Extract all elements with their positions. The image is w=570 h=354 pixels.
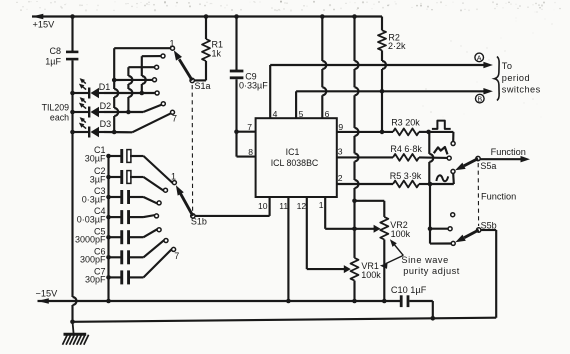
svg-text:1k: 1k: [212, 49, 222, 59]
wire D1 row to contact5: [104, 92, 155, 94]
svg-text:11: 11: [279, 201, 288, 211]
LED D2: [70, 97, 111, 117]
svg-text:R4 6·8k: R4 6·8k: [390, 144, 422, 154]
svg-text:6: 6: [325, 109, 330, 119]
svg-text:100k: 100k: [391, 229, 411, 239]
svg-text:S1a: S1a: [195, 81, 211, 91]
svg-text:Sine wave: Sine wave: [401, 255, 448, 265]
svg-text:30µF: 30µF: [85, 153, 106, 163]
square wave output branch: [429, 132, 456, 146]
wire C9 to IC pin 8: [237, 156, 256, 158]
ground rail wire: [73, 316, 497, 322]
capacitor C5: [75, 226, 158, 244]
Function output arrow (S5a): [480, 147, 530, 162]
switch S5b: [448, 213, 497, 246]
wire S1a pole to R1: [194, 79, 206, 81]
potentiometer VR2: [355, 201, 411, 304]
svg-text:4: 4: [273, 109, 278, 119]
svg-text:A: A: [477, 53, 482, 62]
svg-text:−15V: −15V: [36, 289, 59, 299]
svg-text:0·03µF: 0·03µF: [77, 214, 106, 224]
wire capacitor bus: [106, 156, 111, 303]
capacitor C8: [45, 46, 78, 67]
switch S1a: [153, 38, 211, 123]
scan noise (decorative): [16, 1, 560, 118]
pin label 1 (bottom): [319, 200, 324, 210]
svg-text:B: B: [477, 95, 482, 104]
wire S5b pole to ground rail: [481, 230, 496, 318]
wire S1a contact4 row: [114, 79, 152, 81]
wire bus v1 (contacts 1+4 down to D3 row): [112, 48, 118, 134]
capacitor C2: [90, 166, 165, 191]
pin label 9: [338, 122, 343, 132]
capacitor C1: [85, 145, 173, 183]
wire R2 to B line and pin 9 line: [380, 50, 386, 134]
wire S1a contact3 to bus v2: [128, 66, 154, 68]
pin label 7: [247, 122, 252, 132]
wire S1a contact1 to bus v1: [114, 47, 170, 49]
triangle wave symbol: [434, 147, 448, 154]
brace to period switches: [495, 57, 541, 101]
capacitor C4: [77, 206, 156, 224]
node A output line: [270, 53, 493, 68]
pin label 4: [273, 109, 278, 119]
wire pin 4 riser: [269, 65, 271, 118]
svg-text:1: 1: [170, 38, 175, 48]
pin label 12: [297, 201, 307, 211]
label sine wave purity adjust: [380, 239, 460, 275]
svg-text:7: 7: [247, 122, 252, 132]
resistor R1: [202, 14, 223, 80]
LED D3: [70, 117, 111, 137]
svg-text:TIL209: TIL209: [42, 102, 69, 112]
wire IC pin 12 to VR1 wiper: [307, 197, 351, 273]
mechanical link S5a-S5b (dashed): [477, 163, 479, 226]
svg-text:12: 12: [297, 201, 307, 211]
wire +15V to VR network (vertical): [352, 14, 358, 258]
svg-text:3000pF: 3000pF: [75, 235, 106, 245]
node B output line: [296, 88, 493, 104]
wire D2 row to contact6: [104, 105, 162, 112]
wire bus v3 (contact 2 down to D1 row): [140, 56, 146, 95]
wire IC pin 1 to VR2 wiper: [325, 197, 354, 229]
wire square node to S5b contacts: [428, 132, 452, 244]
label TIL209 each: [42, 102, 69, 122]
wire pin 5 riser: [295, 91, 297, 118]
pin label 2: [338, 173, 343, 183]
wire C9 to IC pin 7: [237, 131, 256, 133]
svg-text:D2: D2: [100, 101, 112, 111]
resistor R2: [378, 17, 406, 52]
svg-text:S5a: S5a: [480, 161, 496, 171]
capacitor C10: [391, 285, 433, 319]
svg-text:7: 7: [174, 251, 179, 261]
pin label 8: [248, 147, 253, 157]
svg-text:2: 2: [338, 173, 343, 183]
mechanical link S1a-S1b (dashed): [191, 85, 193, 212]
pin label 10: [258, 201, 268, 211]
svg-text:S5b: S5b: [481, 220, 497, 230]
sine wave output branch: [430, 169, 455, 184]
svg-text:3: 3: [338, 147, 343, 157]
svg-text:R5 3·9k: R5 3·9k: [390, 171, 422, 181]
svg-text:1µF: 1µF: [45, 57, 61, 67]
svg-text:Function: Function: [491, 147, 526, 157]
svg-text:ICL 8038BC: ICL 8038BC: [271, 158, 319, 168]
LED D1: [70, 78, 110, 98]
svg-text:C10 1µF: C10 1µF: [391, 285, 427, 295]
switch S1b: [155, 172, 207, 261]
svg-text:9: 9: [338, 122, 343, 132]
svg-text:5: 5: [299, 109, 304, 119]
svg-text:100k: 100k: [361, 270, 381, 280]
svg-text:To: To: [502, 61, 513, 71]
capacitor C9: [230, 14, 268, 156]
svg-text:10: 10: [258, 201, 268, 211]
-15V supply rail: [36, 289, 402, 304]
wire bus v2 (contact 3 down to D2 row): [126, 67, 132, 114]
svg-text:+15V: +15V: [33, 20, 56, 30]
svg-text:8: 8: [248, 147, 253, 157]
svg-text:1: 1: [171, 172, 176, 182]
svg-text:C8: C8: [49, 46, 61, 56]
pin label 11: [279, 201, 288, 211]
capacitor C6: [80, 240, 165, 265]
svg-text:switches: switches: [502, 84, 541, 94]
svg-text:Function: Function: [481, 191, 516, 201]
svg-text:0·3µF: 0·3µF: [82, 194, 106, 204]
svg-text:period: period: [502, 73, 530, 83]
svg-text:1: 1: [319, 200, 324, 210]
svg-text:300pF: 300pF: [80, 255, 106, 265]
svg-text:purity adjust: purity adjust: [403, 266, 460, 276]
wire left rail (+15V down to ground): [70, 14, 76, 324]
svg-text:30pF: 30pF: [85, 275, 106, 285]
svg-text:S1b: S1b: [191, 217, 207, 227]
pin label 6: [325, 109, 330, 119]
+15V supply rail: [32, 14, 382, 30]
ground symbol: [63, 322, 89, 345]
wire pin 6 riser: [320, 14, 326, 118]
potentiometer VR1: [351, 258, 382, 303]
svg-text:D3: D3: [100, 119, 112, 129]
svg-text:0·33µF: 0·33µF: [239, 80, 268, 90]
square wave symbol: [432, 121, 451, 129]
sine wave symbol: [436, 175, 448, 181]
wire IC pin 11 to -15V: [286, 197, 291, 303]
wire S1b pole to IC pin 10: [195, 197, 270, 216]
svg-text:IC1: IC1: [286, 147, 300, 157]
svg-text:R3 20k: R3 20k: [391, 118, 420, 128]
svg-text:3µF: 3µF: [90, 174, 106, 184]
resistor R4: [337, 144, 451, 161]
svg-text:7: 7: [172, 114, 177, 124]
svg-text:D1: D1: [99, 82, 111, 92]
pin label 5: [299, 109, 304, 119]
capacitor C7: [85, 249, 172, 285]
svg-text:each: each: [50, 113, 69, 123]
label Function (S5b): [481, 191, 516, 201]
pin label 3: [338, 147, 343, 157]
capacitor C3: [82, 186, 158, 204]
resistor R5: [337, 171, 433, 188]
svg-text:2·2k: 2·2k: [388, 41, 406, 51]
op-amp U1 / IC1 ICL8038BC box: [256, 118, 337, 197]
resistor R3: [337, 118, 431, 136]
switch S5a: [455, 156, 496, 170]
wire D3 row to contact7: [104, 113, 171, 132]
wire S1a contact2 to bus v3: [142, 55, 161, 57]
